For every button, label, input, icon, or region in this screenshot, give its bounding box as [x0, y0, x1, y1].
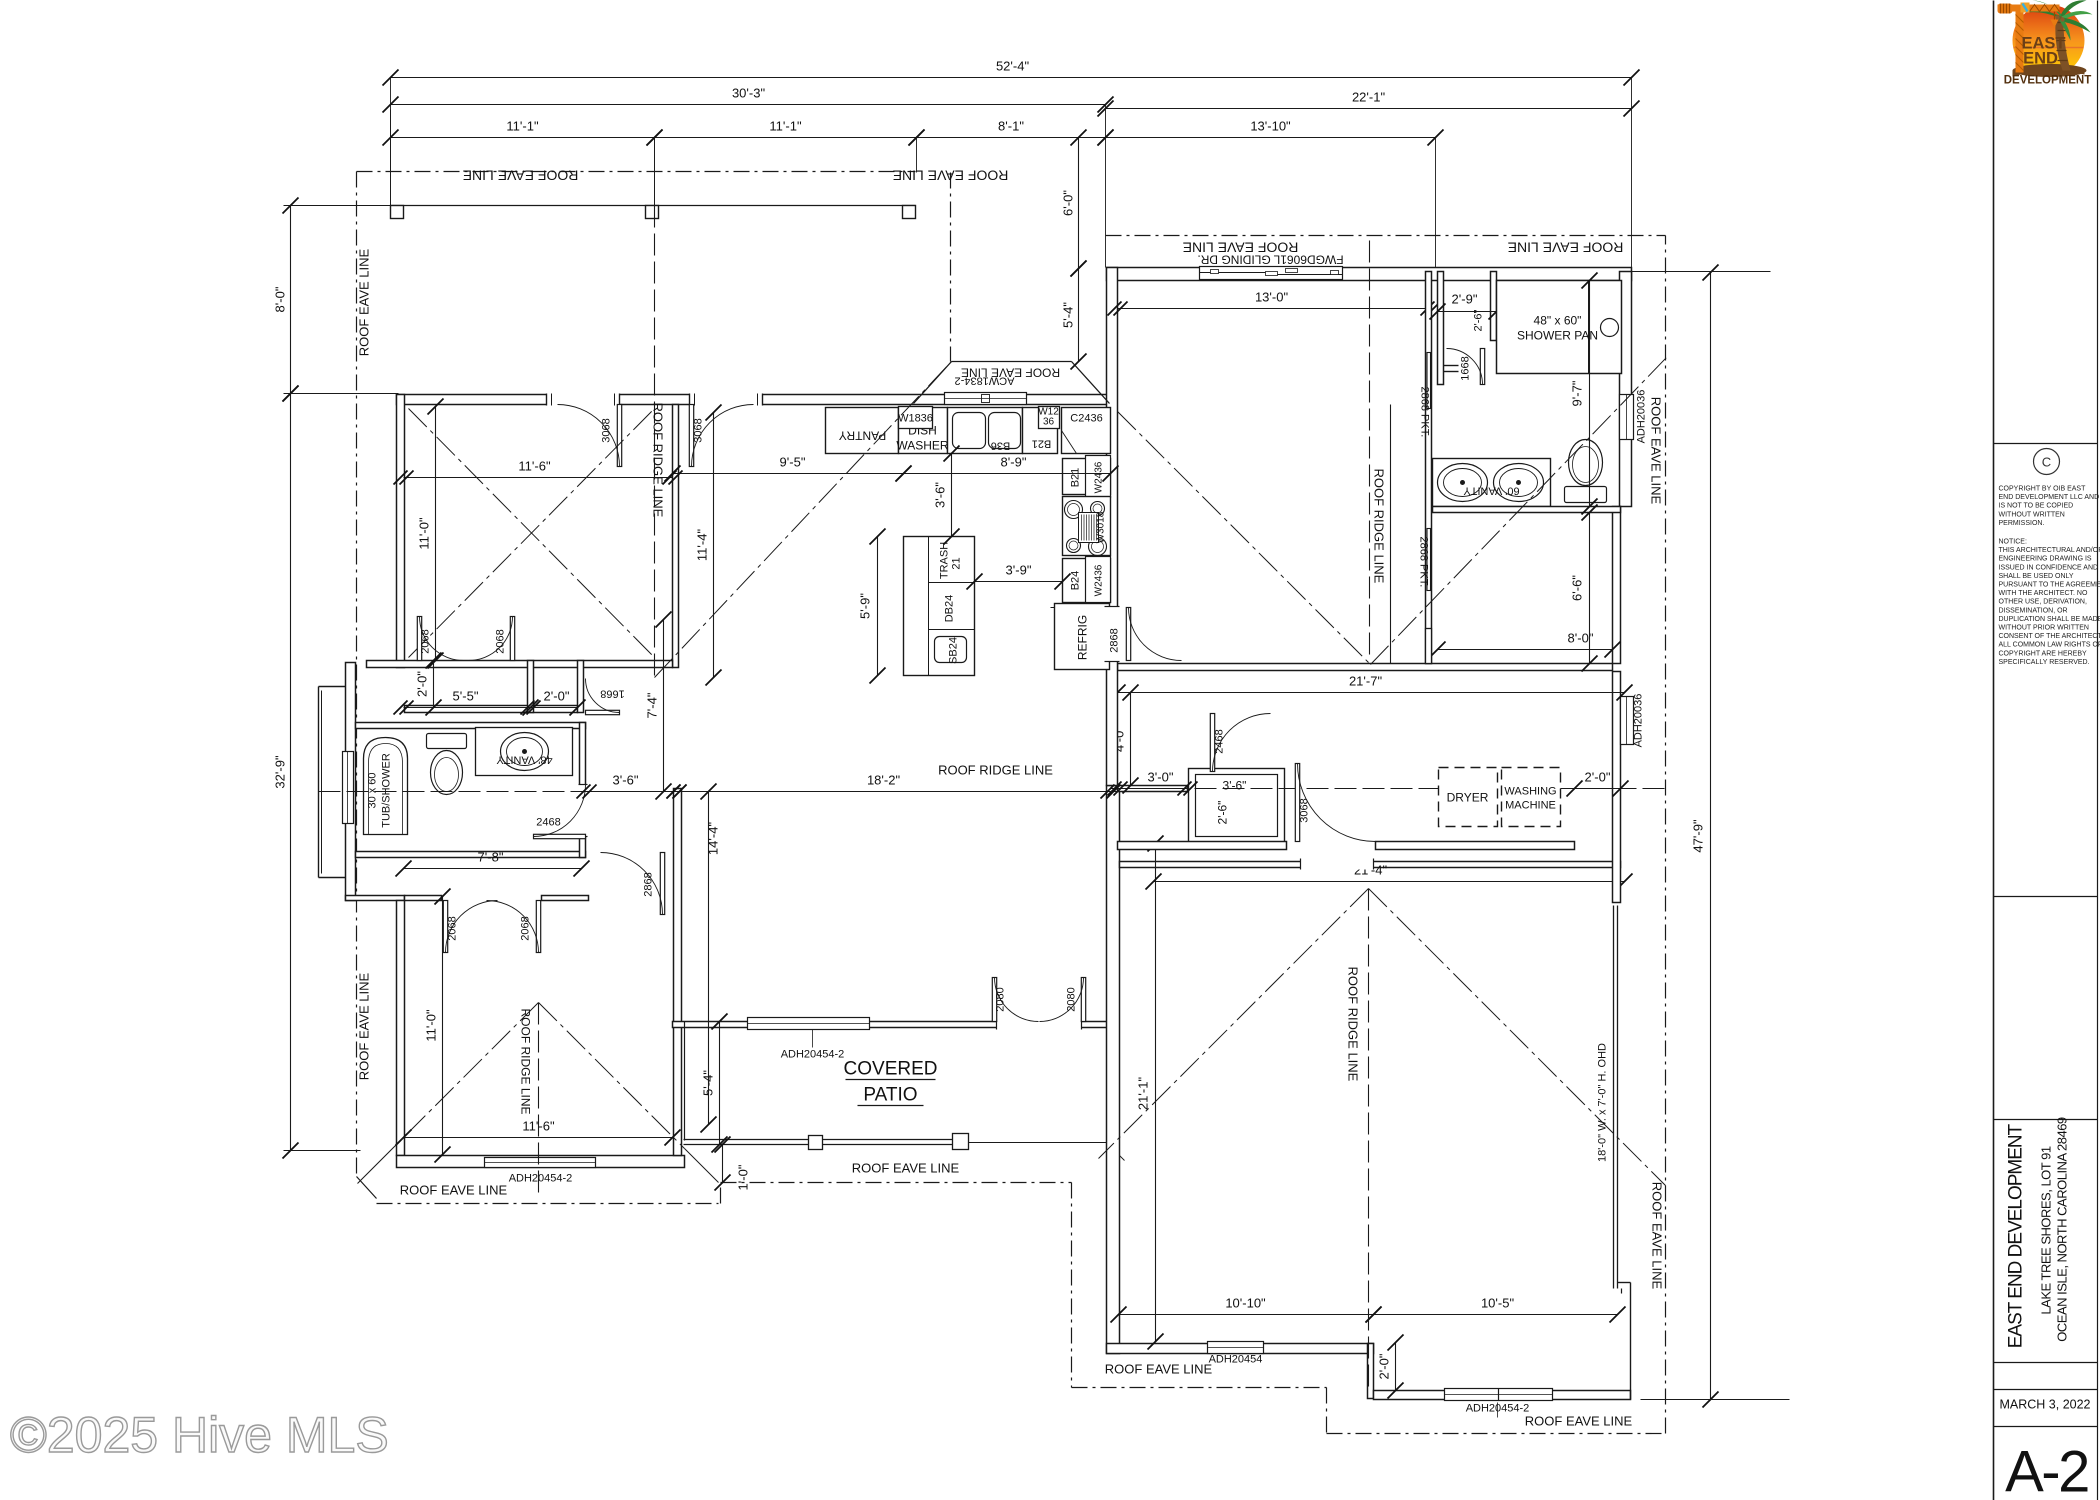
dimension 11'-6" bed3	[396, 1119, 681, 1146]
extension line 47-9 top	[1632, 271, 1771, 273]
svg-text:ROOF RIDGE LINE: ROOF RIDGE LINE	[651, 403, 666, 518]
svg-text:2080: 2080	[1066, 987, 1078, 1011]
island DB24	[929, 629, 975, 631]
bath toilet	[427, 734, 467, 749]
svg-text:11'-1": 11'-1"	[506, 119, 539, 134]
covered patio label	[844, 1059, 938, 1106]
title divider 3	[1994, 1119, 2098, 1121]
laundry south wall	[1118, 842, 1287, 850]
svg-text:B21: B21	[1032, 438, 1052, 450]
dimension 6'-0"	[1061, 130, 1087, 277]
svg-text:5'-9": 5'-9"	[858, 593, 873, 619]
wall hall/bed3 east	[674, 789, 682, 1156]
sliding door FWGD6061L	[1200, 267, 1343, 280]
shower pan 48x60	[1497, 281, 1622, 374]
svg-text:PURSUANT TO THE AGREEMENT: PURSUANT TO THE AGREEMENT	[1999, 582, 2100, 589]
great room hip	[655, 362, 952, 678]
cooktop cabinet	[1063, 497, 1111, 556]
title divider 4	[1994, 1362, 2098, 1364]
laundry hall stub	[1118, 786, 1188, 792]
wc door wall stub	[1444, 365, 1459, 367]
svg-text:LAKE TREE SHORES, LOT 91: LAKE TREE SHORES, LOT 91	[2039, 1146, 2054, 1314]
dimension 8'-1"	[909, 119, 1114, 146]
dishwasher	[899, 408, 948, 454]
roof eave line left wing top	[357, 171, 916, 173]
svg-text:11'-0": 11'-0"	[424, 1009, 439, 1042]
patio post left	[809, 1136, 823, 1150]
svg-text:3'-6": 3'-6"	[613, 773, 639, 788]
door 3068 hall2	[689, 405, 753, 467]
closet door 2068 b	[469, 617, 515, 661]
svg-text:COPYRIGHT BY OIB EAST: COPYRIGHT BY OIB EAST	[1999, 486, 2087, 493]
svg-text:2'-6": 2'-6"	[1216, 801, 1230, 825]
svg-text:2'-0": 2'-0"	[415, 671, 430, 697]
wall cabinet W2436 a	[1086, 456, 1111, 498]
laundry closet inner	[1196, 775, 1278, 837]
closet divider bed2 b	[578, 661, 584, 713]
svg-text:7'-8": 7'-8"	[478, 850, 504, 865]
appliance WASHING MACHINE	[1502, 768, 1561, 827]
dimension 2'-9"	[1430, 292, 1505, 320]
svg-text:2'-0": 2'-0"	[1377, 1353, 1392, 1379]
bed3 hip left	[397, 1003, 539, 1145]
roof eave jog patio left	[720, 1183, 722, 1204]
svg-text:ADH20454: ADH20454	[1209, 1354, 1263, 1366]
svg-text:2868: 2868	[1109, 628, 1121, 652]
dimension 8'-0" porch depth	[273, 198, 299, 402]
door opening hall2	[690, 394, 763, 406]
leader living window	[812, 1030, 814, 1048]
svg-text:MACHINE: MACHINE	[1505, 800, 1556, 812]
svg-text:48' VANITY: 48' VANITY	[496, 754, 553, 766]
svg-text:PATIO: PATIO	[863, 1085, 917, 1106]
dimension 3'-0" hall	[1108, 770, 1198, 796]
dimension 22'-1"	[1098, 90, 1640, 117]
svg-text:10'-5": 10'-5"	[1481, 1296, 1515, 1311]
door 3068 garage-laundry	[1295, 764, 1375, 842]
svg-text:60' VANITY: 60' VANITY	[1463, 485, 1520, 497]
svg-text:C2436: C2436	[1070, 413, 1102, 425]
appliance DRYER	[1439, 768, 1498, 827]
master toilet	[1565, 487, 1607, 503]
laundry north wall (master south)	[1118, 664, 1613, 671]
svg-text:2'-9": 2'-9"	[1452, 292, 1478, 307]
dimension 10'-10" garage	[1111, 1296, 1382, 1323]
svg-text:21'-1": 21'-1"	[1136, 1077, 1151, 1111]
svg-text:ROOF EAVE LINE: ROOF EAVE LINE	[463, 168, 579, 184]
svg-text:5'-4": 5'-4"	[1061, 302, 1076, 328]
wall band above closets	[367, 661, 673, 668]
pocket door lower panel	[1427, 529, 1431, 591]
island SB24 sink	[935, 637, 967, 663]
master east wall lower	[1613, 507, 1621, 664]
bath/wc divider wall	[1433, 507, 1621, 513]
extension line 52-4 right	[1631, 78, 1633, 272]
dimension 21'-1" garage	[1136, 836, 1164, 1350]
svg-text:3'-6": 3'-6"	[933, 482, 948, 508]
svg-text:ROOF EAVE LINE: ROOF EAVE LINE	[1649, 397, 1664, 505]
dimension 8'-0" wic	[1430, 631, 1621, 658]
window ADH20454-2 bed3	[485, 1158, 596, 1168]
master vanity 60	[1433, 459, 1551, 507]
roof eave drop right of patio	[1071, 1183, 1073, 1388]
svg-text:W2436: W2436	[1094, 461, 1105, 493]
svg-text:SB24: SB24	[948, 637, 960, 664]
svg-text:ROOF EAVE LINE: ROOF EAVE LINE	[1508, 240, 1624, 256]
dimension 2'-0" laundry	[1567, 770, 1629, 797]
bath north wall	[356, 723, 586, 729]
svg-text:COPYRIGHT ARE HEREBY: COPYRIGHT ARE HEREBY	[1999, 650, 2088, 657]
bath vanity 48	[476, 728, 573, 776]
svg-text:WASHER: WASHER	[896, 439, 949, 453]
window ADH20454-2 garage	[1445, 1389, 1553, 1401]
svg-text:END: END	[2023, 50, 2058, 68]
island divider v	[928, 537, 930, 676]
door 2468 bath	[534, 785, 586, 839]
svg-text:1'-0": 1'-0"	[736, 1164, 751, 1190]
svg-text:THIS ARCHITECTURAL AND/OR: THIS ARCHITECTURAL AND/OR	[1999, 547, 2100, 554]
svg-text:WITHOUT WRITTEN: WITHOUT WRITTEN	[1999, 511, 2065, 518]
svg-text:REFRIG: REFRIG	[1076, 615, 1090, 660]
garage corner jog	[1618, 1283, 1631, 1400]
svg-text:3'-0": 3'-0"	[1148, 770, 1174, 785]
roof eave line left wing west	[356, 172, 358, 1177]
svg-text:2468: 2468	[536, 817, 560, 829]
base cabinet B21 right	[1063, 459, 1111, 495]
title divider 6	[1994, 1426, 2098, 1428]
title divider 5	[1994, 1389, 2098, 1391]
living south wall	[673, 1022, 1111, 1028]
svg-text:ROOF EAVE LINE: ROOF EAVE LINE	[357, 972, 372, 1080]
svg-text:SPECIFICALLY RESERVED.: SPECIFICALLY RESERVED.	[1999, 659, 2090, 666]
door opening garage-laundry	[1301, 859, 1374, 870]
svg-text:3'-9": 3'-9"	[1006, 563, 1032, 578]
svg-text:B21: B21	[1070, 468, 1082, 488]
svg-text:2468: 2468	[1214, 729, 1226, 753]
exterior wall bed3 south	[397, 1156, 685, 1168]
patio beam	[684, 1140, 969, 1145]
svg-text:2068: 2068	[520, 916, 532, 940]
svg-text:ROOF EAVE LINE: ROOF EAVE LINE	[1525, 1414, 1633, 1429]
porch post mid	[646, 206, 659, 219]
sink bowl left	[953, 413, 986, 449]
dimension 32'-9" left overall	[273, 386, 299, 1159]
svg-text:18'-0" W. x 7'-0" H. OHD: 18'-0" W. x 7'-0" H. OHD	[1597, 1043, 1609, 1162]
svg-text:ADH20036: ADH20036	[1633, 694, 1645, 748]
master north wall	[1107, 268, 1632, 281]
dimension 11'-0" bed2	[417, 399, 444, 669]
svg-text:NOTICE:: NOTICE:	[1999, 539, 2027, 546]
svg-text:END DEVELOPMENT LLC AND: END DEVELOPMENT LLC AND	[1999, 494, 2100, 501]
extension line top left	[390, 78, 392, 206]
svg-text:6'-0": 6'-0"	[1061, 190, 1076, 216]
svg-text:OCEAN ISLE, NORTH CAROLINA 284: OCEAN ISLE, NORTH CAROLINA 28469	[2055, 1117, 2070, 1342]
garage hip left	[1099, 889, 1369, 1159]
tub 30x60	[364, 738, 408, 835]
exterior wall bed3 west	[397, 901, 405, 1156]
island trash	[929, 582, 975, 584]
ridge line through laundry	[1111, 788, 1666, 790]
svg-text:FWGD6061L GLIDING DR.: FWGD6061L GLIDING DR.	[1197, 253, 1343, 267]
svg-text:B24: B24	[1070, 571, 1082, 591]
dimension 13'-0" master	[1108, 290, 1441, 316]
door opening patio	[997, 1020, 1082, 1030]
wall cabinet W1236	[1039, 407, 1060, 429]
svg-text:ISSUED IN CONFIDENCE AND: ISSUED IN CONFIDENCE AND	[1999, 564, 2099, 571]
bed3 ridge vertical	[538, 1003, 540, 1197]
master vanity sink left	[1438, 464, 1488, 502]
svg-text:11'-4": 11'-4"	[695, 529, 710, 562]
dimension 11'-4"	[695, 405, 722, 686]
garage hip right	[1369, 889, 1666, 1186]
dimension 3'-9"	[967, 563, 1071, 590]
svg-text:2068: 2068	[420, 629, 432, 653]
door opening master	[1105, 607, 1120, 662]
svg-text:2'-6": 2'-6"	[1473, 309, 1485, 331]
roof eave line patio bottom	[721, 1182, 1072, 1184]
roof ridge line horizontal	[319, 791, 1125, 793]
svg-text:MARCH 3, 2022: MARCH 3, 2022	[2000, 1398, 2091, 1412]
exterior wall bath west	[346, 663, 356, 901]
porch post left	[391, 206, 404, 219]
svg-text:9'-5": 9'-5"	[780, 455, 806, 470]
corner cabinet C2436	[1062, 408, 1111, 454]
dimension 47'-9" right overall	[1691, 265, 1719, 1408]
dimension 8'-9"	[896, 455, 1119, 482]
sink base B36	[948, 408, 1023, 454]
dimension 3'-6" ridge	[577, 773, 687, 799]
svg-text:OTHER USE, DERIVATION,: OTHER USE, DERIVATION,	[1999, 599, 2087, 606]
garage south wall right	[1374, 1391, 1631, 1400]
dimension 2'-0" garage step	[1377, 1335, 1404, 1399]
sink bowl right	[989, 413, 1021, 449]
svg-text:2068: 2068	[447, 916, 459, 940]
patio door 2080 a	[992, 978, 1038, 1022]
dimension 52'-4" overall top	[383, 59, 1640, 86]
master ridge vertical	[1369, 241, 1371, 661]
master vanity sink right	[1494, 464, 1544, 502]
door opening bath	[579, 785, 588, 837]
porch post right	[903, 206, 916, 219]
svg-text:ROOF RIDGE LINE: ROOF RIDGE LINE	[1372, 469, 1387, 584]
wall cabinet W2436 b	[1086, 557, 1111, 603]
dimension 13'-10"	[1098, 119, 1444, 146]
svg-text:2868 PKT.: 2868 PKT.	[1419, 387, 1431, 438]
svg-text:ADH20036: ADH20036	[1636, 390, 1648, 444]
svg-text:32'-9": 32'-9"	[273, 755, 288, 789]
bed2 hip diagonal b	[409, 409, 655, 658]
bed3 hip left ext	[358, 1145, 397, 1184]
svg-text:EAST END DEVELOPMENT: EAST END DEVELOPMENT	[2006, 1123, 2027, 1348]
title block border	[1993, 1, 1995, 1500]
garage ridge vertical	[1368, 889, 1370, 1391]
svg-text:ROOF EAVE LINE: ROOF EAVE LINE	[893, 168, 1009, 184]
bed2 hip diagonal a	[409, 409, 655, 658]
svg-text:DISSEMINATION, OR: DISSEMINATION, OR	[1999, 607, 2068, 614]
svg-text:©2025 Hive MLS: ©2025 Hive MLS	[10, 1407, 389, 1463]
svg-text:CONSENT OF THE ARCHITECT.: CONSENT OF THE ARCHITECT.	[1999, 633, 2100, 640]
svg-text:30'-3": 30'-3"	[732, 86, 766, 101]
svg-text:DEVELOPMENT: DEVELOPMENT	[2004, 75, 2092, 87]
title divider 1	[1994, 443, 2098, 445]
kitchen island	[904, 537, 975, 676]
svg-text:IS NOT TO BE COPIED: IS NOT TO BE COPIED	[1999, 503, 2074, 510]
svg-text:2868 PKT.: 2868 PKT.	[1418, 537, 1430, 588]
exterior wall top (porch back)	[397, 395, 1111, 405]
dimension 11'-6" bed2	[394, 459, 683, 485]
bath south wall	[356, 852, 586, 858]
svg-text:ROOF RIDGE LINE: ROOF RIDGE LINE	[938, 763, 1053, 778]
extension line top right kitchen	[916, 138, 918, 173]
svg-text:A-2: A-2	[2005, 1440, 2088, 1500]
svg-text:11'-6": 11'-6"	[518, 459, 551, 474]
svg-text:W1836: W1836	[898, 413, 933, 425]
bed3 hip right ext	[685, 1149, 719, 1183]
base cabinet B24	[1063, 559, 1111, 603]
ridge line bed2 vertical	[654, 206, 656, 678]
door 3068 bed2	[558, 405, 622, 467]
master bedroom east wall (pocket wall)	[1426, 272, 1432, 664]
shower drain	[1601, 319, 1619, 337]
extension line master left	[1105, 105, 1107, 268]
closet divider bed2	[528, 661, 534, 713]
dimension 5'-4" nook	[1061, 261, 1087, 370]
bath east wall	[580, 723, 586, 858]
porch edge left	[390, 110, 392, 206]
window bath left	[343, 752, 354, 824]
dimension 7'-4"	[645, 612, 672, 800]
svg-text:9'-7": 9'-7"	[1570, 380, 1585, 406]
svg-text:ROOF EAVE LINE: ROOF EAVE LINE	[357, 248, 372, 356]
porch ridge ext mid	[654, 138, 656, 206]
svg-text:14'-4": 14'-4"	[706, 822, 721, 856]
garage north wall	[1120, 862, 1621, 868]
closet wall bed2 south	[405, 706, 578, 713]
roof eave jog garage	[1326, 1388, 1328, 1434]
door 1668 wc	[1447, 349, 1485, 385]
svg-text:DRYER: DRYER	[1447, 791, 1489, 805]
exterior wall jog bath-bed3	[346, 896, 405, 901]
door 2868 hall-living	[601, 853, 665, 915]
svg-text:ROOF EAVE LINE: ROOF EAVE LINE	[1650, 1182, 1665, 1290]
svg-text:ROOF EAVE LINE: ROOF EAVE LINE	[400, 1183, 508, 1198]
wic wall stub	[1426, 629, 1432, 664]
svg-text:COVERED: COVERED	[844, 1059, 938, 1080]
svg-text:11'-0": 11'-0"	[417, 517, 432, 550]
svg-text:DUPLICATION SHALL BE MADE: DUPLICATION SHALL BE MADE	[1999, 616, 2100, 623]
window ADH20036 bath	[1620, 395, 1634, 440]
bath partition line	[1390, 405, 1392, 664]
extension line porch	[284, 205, 391, 207]
svg-text:3'-6": 3'-6"	[1223, 779, 1247, 793]
svg-text:ACW1834-2: ACW1834-2	[955, 375, 1015, 387]
svg-text:21'-7": 21'-7"	[1349, 674, 1383, 689]
svg-text:ROOF RIDGE LINE: ROOF RIDGE LINE	[1346, 967, 1361, 1082]
cooktop grille	[1079, 513, 1099, 543]
svg-text:W3018: W3018	[1096, 511, 1107, 543]
cooktop burners	[1065, 501, 1083, 519]
roof eave line garage left	[1072, 1387, 1327, 1389]
svg-text:5'-5": 5'-5"	[453, 689, 479, 704]
dimension 9'-7"	[1570, 273, 1598, 515]
roof eave line bottom left	[377, 1203, 719, 1205]
closet door 2068 a	[417, 617, 463, 661]
svg-text:TRASH: TRASH	[939, 542, 951, 579]
dimension 1'-0" eave	[715, 1137, 751, 1191]
svg-text:3068: 3068	[601, 418, 613, 442]
dimension 21'-4"	[1146, 863, 1633, 890]
nook bay wall left	[914, 362, 952, 404]
bath vanity sink	[501, 733, 549, 771]
svg-text:22'-1": 22'-1"	[1352, 90, 1386, 105]
garage step wall	[1368, 1344, 1374, 1399]
dimension 11'-1" right	[647, 119, 925, 146]
extension line 47-9 bottom	[1641, 1399, 1790, 1401]
svg-text:WITHOUT PRIOR WRITTEN: WITHOUT PRIOR WRITTEN	[1999, 625, 2089, 632]
svg-text:1668: 1668	[1460, 356, 1472, 380]
dimension 5'-9" island	[858, 529, 886, 684]
master west wall	[1107, 268, 1118, 786]
svg-text:WASHING: WASHING	[1504, 786, 1556, 798]
dimension 21'-7"	[1110, 674, 1633, 701]
wall bed2/hall (vertical long)	[673, 405, 679, 668]
svg-text:2080: 2080	[995, 987, 1007, 1011]
svg-text:ADH20454-2: ADH20454-2	[781, 1049, 845, 1061]
door 2868 kitchen-master	[1109, 608, 1182, 661]
dimension 6'-6"	[1570, 505, 1598, 672]
window ADH20454 garage	[1208, 1342, 1264, 1354]
porch beam	[391, 205, 916, 207]
svg-text:ROOF RIDGE LINE: ROOF RIDGE LINE	[519, 1009, 533, 1115]
svg-text:2868: 2868	[643, 872, 655, 896]
closet door 2068 d	[487, 901, 541, 953]
window ACW1834-2	[945, 393, 1027, 405]
svg-text:SHALL BE USED ONLY: SHALL BE USED ONLY	[1999, 573, 2074, 580]
svg-text:ENGINEERING DRAWING IS: ENGINEERING DRAWING IS	[1999, 556, 2092, 563]
svg-text:ADH20454-2: ADH20454-2	[509, 1173, 573, 1185]
closet door 2068 c	[443, 901, 497, 953]
extension line 13-10 right	[1435, 138, 1437, 272]
door 1668 hall	[586, 679, 625, 715]
garage OHD door	[1614, 906, 1618, 1289]
svg-text:7'-4": 7'-4"	[645, 692, 660, 718]
dimension 11'-0" bed3	[424, 889, 451, 1163]
svg-text:W2436: W2436	[1094, 564, 1105, 596]
patio edge right	[969, 1142, 1107, 1144]
wall patio/garage west	[1107, 786, 1120, 1354]
wc east wall	[1491, 272, 1497, 341]
bed3 hip right	[539, 1003, 685, 1149]
svg-text:DB24: DB24	[944, 595, 956, 623]
roof eave corner bottom left	[357, 1177, 377, 1199]
dimension 4'-0" hall	[1112, 685, 1139, 794]
base cabinet B21	[1023, 408, 1058, 454]
svg-text:36: 36	[1043, 417, 1055, 428]
title divider 2	[1994, 896, 2098, 898]
svg-text:PERMISSION.: PERMISSION.	[1999, 520, 2045, 527]
patio west edge	[684, 1022, 686, 1141]
dimension 2'-0" closet	[523, 689, 586, 716]
roof eave line garage right	[1665, 236, 1667, 1434]
refrigerator	[1055, 604, 1110, 670]
dimension 2'-0" closet v	[415, 653, 442, 716]
bed3 closet wall b	[542, 896, 589, 901]
pocket door upper panel	[1427, 353, 1431, 409]
laundry closet outer	[1189, 769, 1285, 843]
svg-text:B36: B36	[991, 440, 1011, 452]
nook bay wall top	[952, 361, 1072, 363]
laundry south wall 2	[1376, 842, 1575, 850]
